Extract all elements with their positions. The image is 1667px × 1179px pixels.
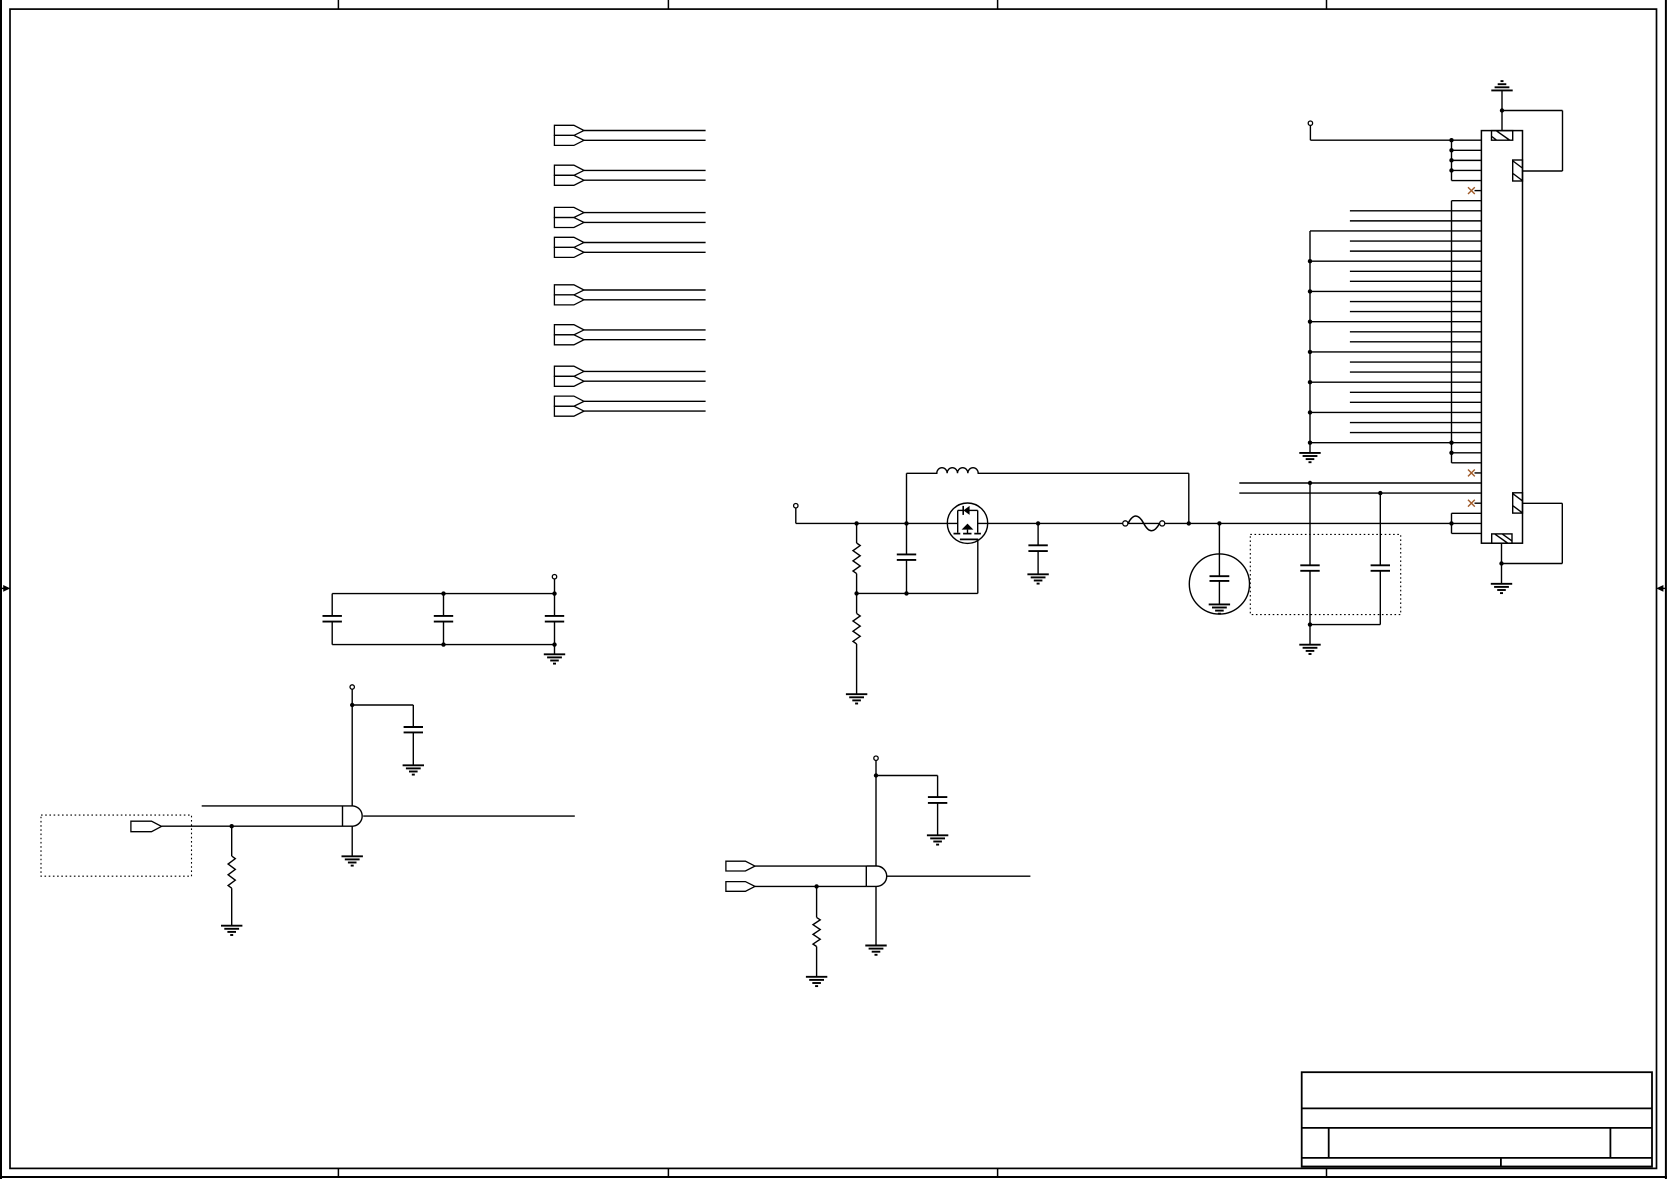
signal entry flag pair group 5	[554, 285, 584, 305]
ground pin 13 of J1	[1310, 260, 1481, 262]
capacitor C-rail	[1028, 523, 1047, 574]
ground pin 31 of J1	[1310, 442, 1481, 444]
wire conn pin35	[1239, 492, 1481, 494]
dotted box option caps	[1250, 534, 1400, 614]
border zone tick bottom 2	[667, 1168, 669, 1177]
signal pin 30 of J1	[1350, 432, 1482, 434]
junction dots ground bus	[1308, 259, 1312, 445]
title block	[1302, 1072, 1652, 1166]
signal pin 18 of J1	[1350, 311, 1482, 313]
connector mounting pad top	[1492, 131, 1513, 141]
ground pin 25 of J1	[1310, 381, 1481, 383]
border zone tick top 2	[667, 0, 669, 9]
pin 33 of J1	[1452, 462, 1482, 464]
ground C-gate1	[403, 765, 424, 774]
ground R-gate1	[221, 926, 242, 935]
junction dots on rail	[854, 521, 1453, 525]
junction dots cap bank	[441, 591, 556, 646]
vertical bus mid section	[1451, 201, 1453, 463]
junction dots top tie	[1449, 138, 1453, 173]
wire group 1 upper	[584, 130, 706, 132]
signal pin 24 of J1	[1350, 371, 1482, 373]
resistor R-divider-bottom	[853, 593, 860, 694]
wire main rail left part	[796, 522, 958, 524]
border zone tick top 4	[1326, 0, 1328, 9]
capacitor C-gate1	[404, 705, 423, 765]
signal pin 26 of J1	[1350, 391, 1482, 393]
wire group 3 upper	[584, 212, 706, 214]
wire group 4 lower	[584, 251, 706, 253]
junction dots pin31 tie	[1449, 440, 1453, 454]
wire group 2 upper	[584, 169, 706, 171]
vertical tie bus bottom pins	[1451, 513, 1453, 533]
sheet outer border bottom edge	[0, 1176, 1667, 1178]
capacitor C-opt-1	[1300, 483, 1319, 625]
capacitor C-bank-3	[545, 594, 564, 645]
signal entry flag pair group 1	[554, 125, 584, 145]
border zone tick bottom 1	[337, 1168, 339, 1177]
capacitor C-gate	[897, 523, 916, 593]
wire gate2 vcc down	[875, 776, 877, 867]
terminal node gate2 vcc	[874, 756, 878, 776]
buffer gate U1	[343, 806, 363, 826]
border zone tick top 1	[337, 0, 339, 9]
ground of pin bus	[1299, 443, 1320, 463]
ground top of connector (inverted)	[1491, 81, 1512, 110]
connector mounting pad right-top	[1513, 160, 1523, 181]
pin 7 of J1	[1452, 200, 1482, 202]
signal pin 12 of J1	[1350, 250, 1482, 252]
wire option caps bottom	[1308, 622, 1381, 626]
pin 2 of J1	[1452, 149, 1482, 151]
signal pin 8 of J1	[1350, 210, 1482, 212]
ground R-gate2	[806, 977, 827, 986]
resistor R-gate2	[813, 886, 820, 976]
signal pin 21 of J1	[1350, 341, 1482, 343]
wire main rail right part	[978, 522, 1482, 524]
net flag gate2 input B	[726, 882, 755, 892]
connector J1 body	[1481, 131, 1522, 544]
ground gate2	[865, 886, 886, 954]
wire gate2 input A	[755, 865, 866, 867]
wire gate1 output	[363, 815, 575, 817]
ground C-gate2	[927, 835, 948, 844]
border centering arrow left	[0, 585, 10, 592]
net flag gate1 input	[131, 821, 162, 832]
junction dot pin35 wire	[1378, 491, 1382, 495]
net flag gate2 input A	[726, 861, 755, 871]
signal entry flag pair group 8	[554, 396, 584, 416]
signal pin 23 of J1	[1350, 361, 1482, 363]
capacitor C-opt-2	[1371, 493, 1390, 624]
border zone tick bottom 3	[997, 1168, 999, 1177]
sheet outer border left edge	[0, 0, 2, 1179]
signal pin 14 of J1	[1350, 270, 1482, 272]
pin 32 of J1	[1452, 452, 1482, 454]
pin 40 of J1	[1452, 532, 1482, 534]
wire group 1 lower	[584, 139, 706, 141]
dotted box gate1 input	[41, 815, 192, 876]
ground pin 28 of J1	[1310, 411, 1481, 413]
wire group 5 lower	[584, 299, 706, 301]
wire cap bank bottom	[332, 644, 554, 646]
wire pin1	[1310, 139, 1481, 141]
signal entry flag pair group 4	[554, 237, 584, 257]
wire group 6 upper	[584, 329, 706, 331]
terminal node pin1	[1308, 121, 1312, 140]
capacitor C-bulk in circle	[1189, 523, 1249, 614]
capacitor C-bank-1	[323, 594, 342, 645]
wire pad top stem	[1501, 111, 1503, 131]
wire group 5 upper	[584, 289, 706, 291]
wire gate2 vcc node	[874, 773, 938, 777]
wire group 7 upper	[584, 370, 706, 372]
terminal node above cap bank	[552, 575, 556, 594]
wire group 6 lower	[584, 339, 706, 341]
pin 3 of J1	[1452, 159, 1482, 161]
terminal node gate1 vcc	[350, 685, 354, 705]
border zone tick bottom 4	[1326, 1168, 1328, 1177]
buffer gate U2	[866, 866, 886, 886]
signal pin 11 of J1	[1350, 240, 1482, 242]
sheet outer border right edge	[1665, 0, 1667, 1179]
ground cap bank	[544, 645, 565, 664]
connector mounting pad bottom	[1492, 534, 1512, 543]
wire gate1 input B	[162, 824, 343, 828]
wire group 7 lower	[584, 380, 706, 382]
wire inductor down to rail	[1188, 473, 1190, 523]
ground C-rail	[1027, 574, 1048, 583]
wire group 8 upper	[584, 400, 706, 402]
resistor R-divider-top	[853, 523, 860, 593]
wire group 8 lower	[584, 410, 706, 412]
ground R-divider	[846, 694, 867, 703]
ground pin 10 of J1	[1310, 230, 1481, 232]
junction dot pin34 wire	[1308, 481, 1312, 485]
ground pin 16 of J1	[1310, 290, 1481, 292]
no-connect pin 34	[1468, 470, 1481, 477]
wire rail to inductor	[906, 473, 908, 523]
wire gate node	[854, 591, 977, 595]
wire group 2 lower	[584, 179, 706, 181]
signal pin 29 of J1	[1350, 422, 1482, 424]
signal entry flag pair group 2	[554, 165, 584, 185]
signal entry flag pair group 7	[554, 366, 584, 386]
wire pad bottom stem	[1501, 543, 1503, 563]
signal pin 15 of J1	[1350, 280, 1482, 282]
resistor R-gate1	[228, 826, 235, 926]
transistor Q1 load switch	[947, 503, 987, 543]
signal entry flag pair group 6	[554, 325, 584, 345]
wire shield bottom loop	[1499, 503, 1562, 565]
wire shield top loop	[1500, 108, 1563, 171]
no-connect pin 37	[1468, 500, 1481, 507]
no-connect pin 6	[1468, 187, 1481, 194]
ground bus vertical	[1309, 231, 1311, 443]
wire gate2 input B	[755, 884, 866, 888]
ground bottom of connector	[1491, 564, 1512, 594]
ground pin 19 of J1	[1310, 321, 1481, 323]
wire gate1 input A	[202, 805, 343, 807]
pin 38 of J1	[1452, 512, 1482, 514]
wire gate2 output	[887, 875, 1031, 877]
wire gate1 vcc down	[351, 705, 353, 806]
terminal input left	[794, 504, 798, 524]
signal pin 9 of J1	[1350, 220, 1482, 222]
wire conn pin34	[1239, 482, 1481, 484]
wire gate1 vcc node	[350, 703, 413, 707]
ground gate1	[342, 826, 363, 865]
wire Q1 gate down	[977, 539, 979, 593]
signal pin 17 of J1	[1350, 301, 1482, 303]
fuse F1	[1123, 516, 1165, 531]
ground option caps	[1299, 625, 1320, 654]
pin 5 of J1	[1452, 180, 1482, 182]
signal entry flag pair group 3	[554, 207, 584, 227]
wire cap bank top	[332, 593, 554, 595]
capacitor C-bank-2	[434, 594, 453, 645]
pin 4 of J1	[1452, 169, 1482, 171]
border centering arrow right	[1656, 585, 1666, 592]
connector mounting pad right-bottom	[1513, 493, 1523, 513]
signal pin 27 of J1	[1350, 401, 1482, 403]
wire group 3 lower	[584, 221, 706, 223]
ground pin 22 of J1	[1310, 351, 1481, 353]
signal pin 20 of J1	[1350, 331, 1482, 333]
vertical tie bus top pins	[1451, 140, 1453, 180]
border zone tick top 3	[997, 0, 999, 9]
capacitor C-gate2	[928, 776, 947, 836]
wire group 4 upper	[584, 242, 706, 244]
inductor L1	[907, 468, 1189, 474]
